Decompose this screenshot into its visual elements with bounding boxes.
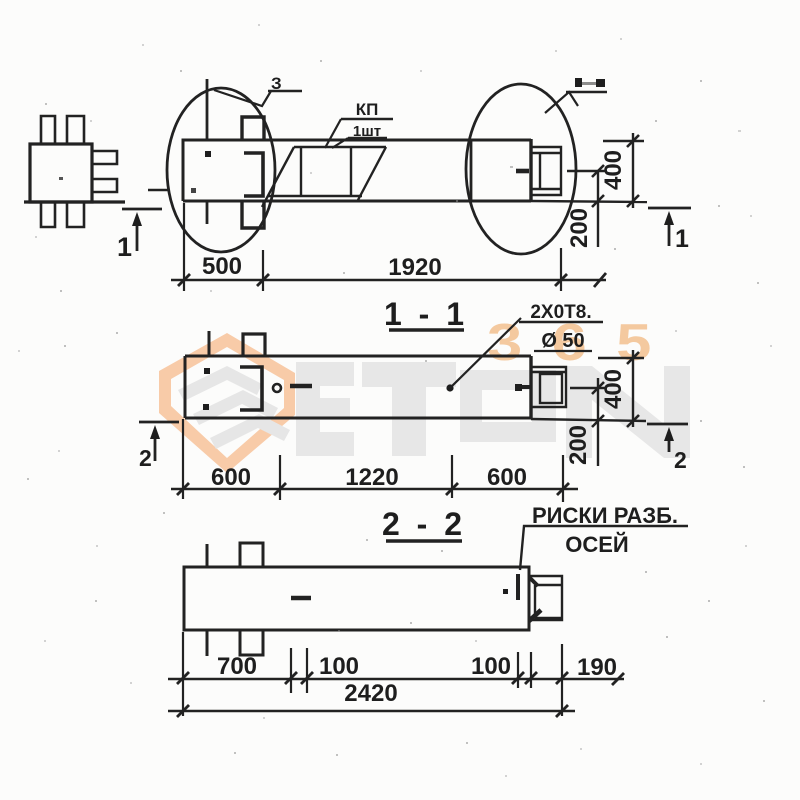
svg-text:Ø 50: Ø 50 — [541, 330, 584, 352]
section mark 2 left line — [139, 421, 179, 424]
svg-text:ОСЕЙ: ОСЕЙ — [565, 532, 629, 557]
watermark letter E — [296, 362, 690, 458]
label 1sht underline — [348, 137, 387, 139]
section mark 1 left arrow — [132, 212, 142, 251]
svg-text:190: 190 — [577, 654, 617, 681]
plan beam right edge — [529, 139, 532, 201]
1-1 small circle — [273, 384, 281, 392]
2-2 top tab — [240, 543, 263, 567]
svg-text:500: 500 — [202, 253, 242, 280]
1-1 beam body — [185, 356, 531, 418]
1-1 dim 400 top extension — [598, 357, 644, 359]
2-2 tenon corner accents — [529, 577, 538, 586]
2-2 dim2 ticks — [177, 705, 568, 717]
2-2 tenon — [529, 576, 562, 620]
2-2 bottom tab — [240, 630, 263, 655]
2-2 dim1 ticks — [177, 672, 624, 685]
label diam 50 underline — [534, 350, 592, 352]
column end-view body square — [30, 144, 92, 202]
svg-text:2Х0Т8.: 2Х0Т8. — [530, 302, 591, 323]
1-1 top tab — [243, 334, 265, 356]
label C leader — [545, 92, 578, 113]
plan dim extension 1 — [183, 203, 185, 291]
plan dim extension 3 — [560, 248, 562, 291]
1-1 dim 400 line — [632, 350, 634, 427]
dim 400 line — [632, 133, 634, 208]
label C glyphs — [575, 78, 605, 87]
svg-text:1: 1 — [675, 225, 689, 253]
end-view bottom tab 2 — [67, 202, 84, 227]
1-1 beam bottom extension — [531, 419, 646, 421]
svg-text:600: 600 — [487, 464, 527, 491]
svg-text:2 - 2: 2 - 2 — [382, 506, 466, 542]
2-2 top stub — [206, 544, 209, 567]
2-2 dimension line 1 — [168, 678, 624, 681]
dim 200 mid extension — [567, 170, 607, 172]
plan tenon hook dash — [516, 169, 529, 174]
plan right detail ellipse — [466, 84, 576, 254]
1-1 beam right edge — [529, 356, 532, 418]
2-2 risk mark — [516, 574, 520, 600]
plan bracket — [244, 153, 263, 196]
section mark 2 right arrow — [664, 427, 674, 452]
section mark 1 right arrow — [664, 211, 674, 246]
end-view bottom tab 1 — [41, 202, 55, 227]
plan left detail ellipse — [167, 88, 275, 252]
section mark 2 left arrow — [150, 425, 160, 461]
label 2x0T8 underline — [519, 321, 603, 323]
dim 400 ticks — [627, 135, 639, 147]
dim 200 ticks — [592, 165, 604, 177]
riski leader line — [520, 526, 688, 570]
watermark chevron stripe 1 — [178, 366, 262, 401]
svg-text:200: 200 — [566, 208, 593, 248]
svg-text:600: 600 — [211, 464, 251, 491]
1-1 dim 200 mid extension — [570, 387, 607, 389]
1-1 centre hole dot — [446, 384, 453, 391]
1-1 dim 400 ticks — [627, 352, 639, 364]
plan beam body — [183, 140, 531, 201]
2-2 middle dash — [291, 596, 311, 601]
watermark chevron stripe 3 — [210, 414, 290, 449]
2-2 dimension line 2 — [168, 710, 575, 713]
watermark chevron stripe 2 — [193, 390, 278, 425]
end-view centre dot — [59, 177, 63, 180]
svg-text:1: 1 — [117, 232, 132, 262]
watermark letter N — [566, 366, 690, 458]
svg-text:1920: 1920 — [388, 254, 441, 281]
1-1 dim 200 ticks — [592, 382, 604, 394]
1-1 rivet dot 1 — [204, 368, 210, 374]
dim 200 line — [597, 171, 599, 247]
plan tenon — [531, 147, 561, 195]
plan dim ticks — [178, 273, 606, 287]
section mark 2 right line — [647, 423, 688, 426]
1-1 dash — [290, 384, 312, 389]
svg-text:З: З — [271, 74, 282, 93]
1-1 top stub — [208, 331, 211, 356]
svg-text:100: 100 — [319, 653, 359, 680]
label KP leaders — [325, 119, 348, 148]
1-1 dim extension 4 — [562, 455, 564, 502]
watermark hexagon logo — [159, 333, 295, 473]
end-view top tab 2 — [67, 116, 84, 144]
label 3 underline — [268, 90, 302, 92]
svg-text:РИСКИ РАЗБ.: РИСКИ РАЗБ. — [532, 503, 678, 528]
section mark 1 right line — [648, 207, 691, 210]
label 3 leader — [214, 90, 271, 106]
svg-text:200: 200 — [565, 425, 592, 465]
1-1 dim ticks — [177, 483, 569, 495]
plan right end inner edge — [470, 140, 473, 201]
plan dim extension 2 — [262, 250, 264, 291]
1-1 dim extension 1 — [182, 419, 184, 499]
1-1 tenon — [531, 367, 566, 407]
svg-text:2: 2 — [139, 445, 152, 471]
1-1 bracket — [240, 367, 262, 410]
title 2-2 underline — [386, 539, 462, 542]
end-view top tab 1 — [41, 116, 55, 144]
label KP underline — [341, 118, 393, 120]
svg-text:2420: 2420 — [344, 680, 397, 707]
svg-text:700: 700 — [217, 653, 257, 680]
2-2 bottom stub — [206, 630, 209, 656]
plan bottom tab — [242, 202, 264, 228]
svg-text:2: 2 — [674, 447, 687, 473]
svg-text:100: 100 — [471, 653, 511, 680]
svg-text:1220: 1220 — [345, 464, 398, 491]
plan stub line left — [206, 79, 209, 140]
label C underline — [566, 91, 607, 94]
watermark letter T — [362, 362, 456, 456]
beam bottom extension to dims — [531, 201, 647, 202]
plan top tab — [242, 117, 264, 140]
end-view right tab 1 — [92, 151, 117, 164]
watermark letter O — [460, 370, 556, 442]
corbel plate parallelogram — [262, 147, 386, 207]
1-1 tenon dot and dash — [515, 384, 522, 391]
title 1-1 underline — [389, 328, 464, 331]
plan bottom dimension line — [171, 279, 606, 282]
1-1 dim 200 line — [597, 378, 599, 466]
plan stub line left lower — [206, 202, 209, 224]
1-1 dim extension 2 — [279, 455, 281, 500]
2-2 beam body — [184, 567, 529, 630]
end-view right tab 2 — [92, 179, 117, 192]
1-1 bottom dimension line — [171, 488, 578, 491]
dim 400 top extension — [603, 140, 644, 142]
plan rivet dot 2 — [191, 188, 196, 193]
leader 2x0T8 — [450, 318, 521, 388]
2-2 dot — [503, 589, 508, 594]
1-1 rivet dot 2 — [203, 404, 209, 410]
svg-text:1шт: 1шт — [353, 123, 381, 140]
plan rivet dot 1 — [205, 151, 211, 157]
svg-text:КП: КП — [356, 100, 379, 119]
end-view baseline — [24, 200, 125, 203]
1-1 dim extension 3 — [451, 455, 453, 498]
section mark 1 left line — [122, 208, 162, 211]
2-2 dim extensions — [183, 632, 562, 716]
svg-text:1 - 1: 1 - 1 — [384, 296, 468, 332]
plan left edge mark — [148, 189, 168, 191]
